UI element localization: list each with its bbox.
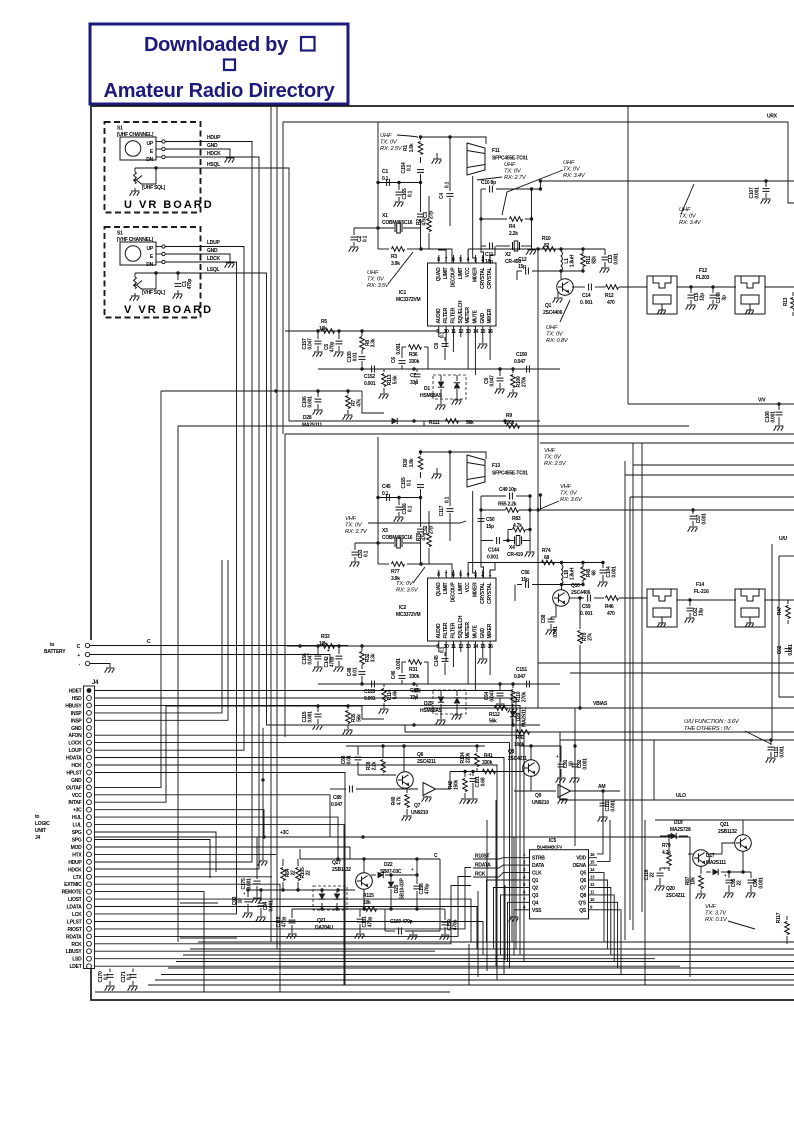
ground (Q9)	[562, 798, 564, 799]
resistor R70 27k	[579, 598, 581, 629]
J4 pin LDET	[87, 964, 92, 969]
svg-text:RX: 2.7V: RX: 2.7V	[504, 175, 527, 181]
svg-text:Q8: Q8	[580, 893, 587, 899]
J4 pin RDATA	[87, 934, 92, 939]
svg-text:13: 13	[590, 875, 595, 880]
resistor R115 10k	[364, 907, 377, 912]
capacitor C151 0.047	[527, 681, 530, 688]
capacitor C101 0.68	[472, 772, 474, 777]
resistor R40 4.7k	[406, 788, 408, 793]
svg-text:C56: C56	[521, 570, 530, 576]
svg-text:QUAD: QUAD	[436, 582, 442, 596]
J4 pin AFON	[87, 733, 92, 738]
J4 pin HTX	[87, 852, 92, 857]
wire audio rail y746	[346, 745, 485, 747]
svg-text:GND: GND	[480, 313, 486, 324]
svg-text:HUL: HUL	[72, 815, 82, 821]
svg-text:0.001: 0.001	[755, 187, 761, 199]
svg-text:SPG: SPG	[72, 838, 82, 844]
wire stub rows bottom-left	[180, 902, 218, 904]
J4 pin INTAF	[87, 800, 92, 805]
svg-text:470p: 470p	[282, 917, 288, 928]
svg-text:SQUELCH: SQUELCH	[458, 300, 464, 323]
capacitor C96 0.001	[750, 872, 752, 878]
svg-text:R9: R9	[506, 413, 512, 419]
svg-text:TX: 0V: TX: 0V	[345, 523, 363, 529]
svg-text:LOUP: LOUP	[69, 748, 83, 754]
capacitor C14 0.001	[572, 286, 585, 288]
bus vertical VHF left a	[624, 461, 626, 940]
ground (VHF osc)	[436, 468, 438, 474]
capacitor C144 0.001	[481, 540, 493, 542]
V VR BOARD dashed enclosure	[105, 227, 201, 318]
svg-text:HSD: HSD	[72, 696, 82, 702]
diode D29 MA2S111	[510, 711, 516, 716]
svg-text:15p: 15p	[521, 577, 529, 583]
svg-text:C89: C89	[333, 795, 342, 801]
svg-text:0.001: 0.001	[396, 343, 402, 355]
svg-text:SPG: SPG	[72, 830, 82, 836]
svg-text:HSQL: HSQL	[207, 162, 220, 168]
IC5 pin 4 Q1	[521, 879, 530, 881]
svg-text:MIXER: MIXER	[487, 308, 493, 323]
wire C106 row corner	[362, 391, 384, 413]
svg-text:1.8uH: 1.8uH	[570, 567, 576, 580]
capacitor C50 15p	[478, 519, 485, 522]
svg-text:R31: R31	[409, 667, 418, 673]
capacitor C170 0.1	[109, 969, 111, 973]
svg-text:0.001: 0.001	[788, 644, 794, 656]
filter F14 FL-216 (b)	[735, 589, 765, 627]
svg-text:U/U: U/U	[779, 536, 788, 542]
svg-text:2SC4406: 2SC4406	[543, 310, 563, 316]
J4 pin OUTAF	[87, 785, 92, 790]
svg-text:IC1: IC1	[399, 290, 407, 296]
svg-text:0.001: 0.001	[487, 555, 499, 561]
wire rail y740	[560, 739, 794, 741]
svg-text:Q7: Q7	[580, 886, 587, 892]
S1 pin E	[162, 147, 165, 150]
svg-text:BATTERY: BATTERY	[44, 649, 66, 655]
resistor R7 47k	[347, 391, 349, 394]
J4 pin HSD	[87, 696, 92, 701]
svg-text:Q3: Q3	[532, 893, 539, 899]
svg-text:RIOST: RIOST	[67, 927, 81, 933]
resistor R8 3.3k	[361, 331, 363, 336]
J4 pin LBUSY	[87, 949, 92, 954]
svg-text:TX: 3.7V: TX: 3.7V	[705, 911, 727, 917]
svg-text:UNIT: UNIT	[35, 828, 46, 834]
svg-text:METER: METER	[465, 622, 471, 639]
svg-text:10k: 10k	[319, 326, 327, 332]
svg-text:METER: METER	[465, 307, 471, 324]
wire VHF osc left column	[377, 437, 379, 564]
J4 pin HUL	[87, 815, 92, 820]
svg-text:E: E	[150, 254, 154, 260]
diode D22 SB07-03C	[378, 872, 383, 878]
svg-text:RX: 0.8V: RX: 0.8V	[546, 338, 569, 344]
svg-text:F13: F13	[492, 463, 500, 469]
svg-text:FL-216: FL-216	[694, 589, 709, 595]
S1 pin UP	[162, 140, 165, 143]
svg-text:CRYSTAL: CRYSTAL	[487, 582, 493, 604]
svg-text:C117: C117	[439, 505, 445, 516]
svg-text:UN9210: UN9210	[411, 810, 428, 816]
svg-text:0.001: 0.001	[364, 381, 376, 387]
resistor R35 56k	[347, 706, 349, 709]
capacitor C47 33p	[416, 684, 418, 687]
wire osc column lower	[420, 183, 422, 213]
buffer Q9 UN9210	[558, 785, 571, 798]
svg-text:330k: 330k	[409, 674, 420, 680]
svg-text:0.047: 0.047	[490, 375, 496, 387]
transistor Q21b 2SB1132	[735, 835, 752, 852]
ground (X2)	[531, 189, 533, 250]
capacitor C12 15p	[517, 270, 522, 272]
svg-text:VBIAS: VBIAS	[593, 701, 608, 707]
svg-text:R36: R36	[409, 352, 418, 358]
svg-text:HSM88AS: HSM88AS	[420, 708, 443, 714]
svg-text:2.2k: 2.2k	[372, 761, 378, 770]
svg-text:TX: 0V: TX: 0V	[544, 455, 562, 461]
capacitor C107 0.001	[764, 179, 767, 182]
battery pin +	[85, 652, 89, 656]
wire VHF rail y475	[625, 474, 794, 476]
capacitor C94 0.001	[260, 890, 262, 901]
wire rail y673	[570, 672, 794, 674]
svg-text:5.6k: 5.6k	[393, 690, 399, 699]
resistor R110 270k	[512, 684, 514, 688]
bus vertical x178	[177, 426, 179, 942]
capacitor C95 22	[728, 872, 730, 878]
svg-text:HBUSY: HBUSY	[65, 703, 82, 709]
svg-text:R111: R111	[429, 420, 440, 426]
svg-text:HCK: HCK	[71, 763, 82, 769]
J4 pin REMOTE	[87, 889, 92, 894]
resistor R11 82k	[581, 254, 586, 267]
svg-text:0.1: 0.1	[408, 190, 414, 197]
J4 pin GND	[87, 725, 92, 730]
svg-text:FILTER: FILTER	[443, 622, 449, 638]
svg-text:2SB1132: 2SB1132	[332, 867, 351, 873]
resistor R12 470	[606, 285, 619, 290]
svg-text:MC3372VM: MC3372VM	[396, 297, 420, 303]
svg-text:0.1: 0.1	[407, 164, 413, 171]
capacitor C105 0.01	[359, 357, 366, 360]
wire GND (U)	[165, 149, 230, 158]
svg-text:to: to	[35, 814, 39, 820]
J4 pin HDCK	[87, 867, 92, 872]
J4 wiring harness	[95, 691, 513, 943]
capacitor C111 0.001	[769, 738, 772, 741]
svg-text:TX: 0V: TX: 0V	[560, 491, 578, 497]
svg-text:UN9210: UN9210	[532, 800, 549, 806]
capacitor C53 0.1	[354, 543, 356, 550]
capacitor C8 0.1	[444, 337, 446, 341]
svg-text:R5: R5	[321, 319, 327, 325]
resistor R76 47k	[428, 511, 430, 532]
wire pin2 crystal	[481, 246, 484, 263]
svg-text:HDUP: HDUP	[207, 135, 221, 141]
capacitor C165 0.1	[398, 183, 400, 191]
svg-text:SQUELCH: SQUELCH	[458, 615, 464, 638]
diode D20 SB10-03P	[388, 882, 394, 887]
svg-text:HSM88AS: HSM88AS	[420, 393, 443, 399]
svg-text:HPLST: HPLST	[66, 771, 81, 777]
capacitor C6 0.001	[401, 355, 403, 358]
svg-text:10: 10	[238, 898, 244, 904]
transistor Q17 D17 MA2S111	[693, 850, 710, 867]
capacitor C9 0.047	[499, 369, 501, 376]
wire VHF rail y562	[537, 562, 603, 564]
bus bottom lines	[198, 941, 794, 943]
wire RCK to IC5	[95, 886, 472, 944]
capacitor C1 0.1	[387, 179, 390, 186]
svg-text:0.001: 0.001	[396, 658, 402, 670]
svg-text:0. 001: 0. 001	[580, 300, 593, 306]
svg-text:INSP: INSP	[71, 718, 83, 724]
svg-text:3.9k: 3.9k	[391, 261, 400, 267]
svg-text:56k: 56k	[466, 420, 474, 426]
wire power row y909	[292, 908, 440, 910]
svg-text:UHF: UHF	[679, 207, 691, 213]
ground (Q7)	[426, 796, 428, 797]
svg-text:10p: 10p	[699, 608, 705, 616]
svg-text:Q1: Q1	[532, 878, 539, 884]
svg-text:GND: GND	[71, 726, 82, 732]
wire pin1 crystal VHF	[490, 562, 495, 578]
svg-text:S1: S1	[117, 231, 123, 237]
bus vertical VHF left b	[632, 443, 634, 930]
svg-text:RX: 3.4V: RX: 3.4V	[679, 220, 702, 226]
svg-text:INSP: INSP	[71, 711, 83, 717]
wire LDUP	[95, 247, 245, 751]
transistor Q27 2SB1132	[356, 873, 373, 890]
wire AM out	[571, 790, 621, 792]
svg-text:0.001: 0.001	[269, 900, 275, 912]
J4 pin LCK	[87, 912, 92, 917]
svg-text:HDET: HDET	[69, 689, 82, 695]
svg-text:C150: C150	[516, 352, 527, 358]
svg-text:5.6k: 5.6k	[393, 375, 399, 384]
schematic outer border	[91, 106, 794, 640]
svg-text:DECOUP: DECOUP	[450, 582, 456, 603]
svg-text:STRB: STRB	[532, 856, 545, 862]
svg-text:VCC: VCC	[72, 793, 82, 799]
svg-text:C59: C59	[582, 604, 591, 610]
wire battery - to ground	[90, 664, 110, 668]
svg-text:0.001: 0.001	[583, 758, 589, 770]
svg-text:HDCK: HDCK	[207, 151, 221, 157]
S1V pin DN	[162, 260, 165, 263]
J4 pin HPLST	[87, 770, 92, 775]
ground (osc)	[436, 153, 438, 159]
svg-text:MC3372VM: MC3372VM	[396, 612, 420, 618]
svg-text:C152: C152	[364, 374, 375, 380]
svg-text:R41: R41	[484, 753, 493, 759]
svg-text:C12: C12	[518, 257, 527, 263]
svg-text:MUTE: MUTE	[472, 309, 478, 323]
svg-text:0. 001: 0. 001	[580, 611, 593, 617]
svg-text:+: +	[243, 891, 246, 896]
capacitor C5 470p	[338, 331, 340, 339]
ground (C160)	[412, 931, 414, 934]
svg-text:QUAD: QUAD	[436, 267, 442, 281]
svg-text:U/U FUNCTION : 3.6V: U/U FUNCTION : 3.6V	[684, 719, 740, 725]
wire VHF rail y510	[538, 509, 794, 511]
svg-text:R12: R12	[605, 293, 614, 299]
capacitor C160 470p	[385, 930, 395, 932]
capacitor C88 0.01	[357, 746, 359, 755]
svg-text:C: C	[147, 639, 151, 645]
svg-text:LDCK: LDCK	[207, 256, 221, 262]
svg-text:E: E	[150, 149, 154, 155]
wire VHF rail y465	[633, 464, 794, 466]
svg-text:UP: UP	[147, 246, 154, 252]
wire pin7 decoup	[438, 250, 446, 255]
IC5 pin 14 Q5	[589, 872, 598, 874]
svg-text:470: 470	[607, 300, 615, 306]
svg-text:22: 22	[737, 880, 743, 886]
svg-text:+3C: +3C	[280, 830, 289, 836]
svg-text:RCK: RCK	[71, 942, 82, 948]
svg-text:HDUP: HDUP	[68, 860, 82, 866]
S1 pin DN	[162, 155, 165, 158]
svg-text:0.1: 0.1	[408, 505, 414, 512]
svg-text:R77: R77	[391, 569, 400, 575]
J4 pin EXTMIC	[87, 882, 92, 887]
capacitor C118 470p	[291, 909, 293, 918]
svg-text:TX: 0V: TX: 0V	[563, 167, 581, 173]
svg-text:Amateur Radio Directory: Amateur Radio Directory	[103, 80, 335, 102]
svg-text:0.047: 0.047	[514, 674, 526, 680]
svg-text:C14: C14	[582, 293, 591, 299]
svg-text:EXTMIC: EXTMIC	[64, 882, 82, 888]
resistor R31 330k	[402, 661, 406, 663]
svg-text:LDATA: LDATA	[67, 905, 83, 911]
svg-text:GND: GND	[71, 778, 82, 784]
resistor R43 100k	[517, 730, 530, 735]
svg-text:R33: R33	[321, 634, 330, 640]
resistor R46 470	[606, 596, 619, 601]
svg-text:GND: GND	[207, 248, 218, 254]
svg-text:Q27: Q27	[332, 860, 341, 866]
svg-text:ULO: ULO	[676, 793, 686, 799]
resistor R113 5.6k	[383, 369, 385, 372]
wire HDUP	[95, 142, 253, 863]
resistor R30 1.8k	[420, 452, 422, 455]
wire OUTAF riser	[95, 391, 162, 787]
svg-text:UHF: UHF	[546, 325, 558, 331]
svg-text:8: 8	[523, 904, 526, 909]
capacitor C59 0.001	[569, 597, 584, 599]
svg-text:470p: 470p	[368, 917, 374, 928]
wire squelch row y421	[289, 420, 540, 422]
transistor Q1 2SC4406	[557, 279, 574, 296]
resistor R77 3.9k	[378, 563, 389, 565]
svg-text:68: 68	[592, 570, 598, 576]
svg-text:HTX: HTX	[72, 852, 82, 858]
svg-text:15p: 15p	[518, 264, 526, 270]
resistor R45 68	[581, 567, 586, 580]
svg-text:C4: C4	[439, 193, 445, 199]
J4 pin VCC	[87, 792, 92, 797]
svg-text:14: 14	[590, 867, 595, 872]
capacitor C115 0.001	[317, 706, 319, 712]
J4 pin INSP	[87, 711, 92, 716]
svg-text:URX: URX	[767, 114, 778, 120]
svg-text:C: C	[77, 644, 81, 650]
svg-text:VSS: VSS	[532, 908, 542, 914]
svg-text:R43: R43	[516, 735, 525, 741]
diode D1 HSM88AS	[433, 375, 466, 399]
svg-text:MIXER: MIXER	[472, 582, 478, 597]
svg-text:LPLST: LPLST	[67, 920, 82, 926]
svg-text:X3: X3	[382, 528, 388, 534]
wire power row y890	[248, 889, 355, 891]
capacitor C117 0.1	[449, 452, 451, 506]
J4 pin HDATA	[87, 755, 92, 760]
wire VHF osc column lower	[420, 498, 422, 528]
UHF shield box right edge	[627, 106, 629, 404]
ground under VHF pot	[130, 296, 140, 301]
buffer Q7 UN9210	[423, 783, 436, 796]
svg-text:VCC: VCC	[465, 267, 471, 277]
svg-text:+: +	[411, 867, 414, 872]
bus mid verticals	[468, 944, 470, 985]
J4 pin RIOST	[87, 927, 92, 932]
svg-text:1.8k: 1.8k	[409, 143, 415, 152]
wire battery C	[90, 645, 348, 647]
svg-text:2SC4211: 2SC4211	[666, 893, 685, 899]
capacitor C175 0.001	[256, 837, 258, 879]
svg-text:Downloaded by: Downloaded by	[144, 34, 289, 56]
svg-text:[VHF SQL]: [VHF SQL]	[142, 290, 165, 296]
svg-text:J4: J4	[35, 835, 41, 841]
transistor Q10 2SC4406	[553, 590, 570, 607]
svg-text:RX: 3.5V: RX: 3.5V	[367, 283, 390, 289]
svg-text:LOCK: LOCK	[68, 741, 82, 747]
capacitor C4 0.1	[449, 137, 451, 191]
ground (U GND)	[225, 158, 235, 163]
J4 pin LUL	[87, 822, 92, 827]
IC5 pin 15 OENA	[589, 864, 598, 866]
svg-text:VHF: VHF	[345, 516, 357, 522]
svg-text:0.1: 0.1	[364, 550, 370, 557]
VHF shield box top edge	[285, 433, 794, 435]
svg-text:IC5: IC5	[549, 838, 557, 844]
wire rail y820	[655, 819, 794, 821]
svg-text:100k: 100k	[504, 420, 515, 426]
capacitor C112 0.001	[601, 789, 604, 792]
svg-text:Q6: Q6	[580, 878, 587, 884]
J4 pin RCK	[87, 941, 92, 946]
svg-text:470p: 470p	[187, 279, 193, 290]
resistor R1 1.8k	[420, 137, 422, 140]
wire IC1 pin columns down	[445, 337, 447, 347]
filter F13 SFPC455E-TC01	[467, 455, 485, 487]
svg-text:X2: X2	[505, 252, 511, 258]
svg-text:R112: R112	[489, 712, 500, 718]
svg-text:D28: D28	[303, 415, 312, 421]
wire power feed row	[299, 849, 301, 859]
svg-text:+3C: +3C	[73, 808, 82, 814]
svg-text:FL203: FL203	[696, 275, 710, 281]
J4 pin LOCK	[87, 740, 92, 745]
wire R3 to pin6	[421, 249, 452, 263]
svg-text:BU4094BCFV: BU4094BCFV	[537, 845, 562, 850]
capacitor C158 470p	[416, 875, 418, 884]
